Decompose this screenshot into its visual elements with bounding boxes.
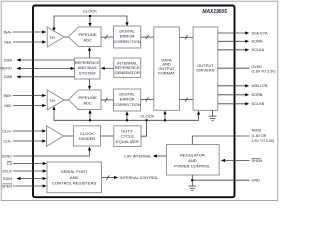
- wire T/H B to pipeline ADC B: [64, 99, 68, 101]
- pin INA+: [3, 30, 46, 34]
- svg-text:SDIN: SDIN: [3, 177, 12, 181]
- pin CLK+: [2, 129, 46, 133]
- svg-text:INTERNAL CONTROL: INTERNAL CONTROL: [120, 176, 158, 180]
- node 1.8V INTERNAL: [124, 154, 167, 158]
- svg-text:CORRECTION: CORRECTION: [113, 39, 140, 44]
- wire equalizer output to clock rail: [141, 120, 147, 136]
- clock divider: [74, 126, 101, 146]
- svg-text:CLOCK: CLOCK: [140, 113, 154, 118]
- svg-text:INB+: INB+: [3, 94, 12, 98]
- svg-text:CLOCK: CLOCK: [83, 9, 97, 14]
- wire DEC A to data format (bus): [141, 35, 154, 39]
- pin GND: [192, 179, 260, 183]
- reference and bias system: [75, 58, 101, 79]
- outer frame: [1, 1, 278, 200]
- wire buffer to clock divider: [64, 135, 74, 137]
- pin INA-: [4, 40, 46, 44]
- wire pipeline B to DEC B (bus): [101, 98, 114, 102]
- pin DCLKB: [218, 102, 265, 106]
- svg-text:DORA: DORA: [252, 40, 263, 44]
- wire clock to T/H B: [52, 106, 55, 110]
- svg-text:INA+: INA+: [3, 30, 12, 34]
- svg-text:(1.8V TO 3.3V): (1.8V TO 3.3V): [252, 70, 276, 74]
- clock input buffer: [47, 126, 64, 147]
- ground (regulator): [188, 180, 196, 190]
- svg-text:AND: AND: [70, 175, 79, 180]
- pin SPEN (active low): [2, 184, 47, 188]
- svg-text:CONTROL REGISTERS: CONTROL REGISTERS: [52, 181, 96, 186]
- svg-text:ERROR: ERROR: [120, 34, 135, 39]
- T/H amplifier B: [47, 90, 64, 110]
- pin CLK-: [3, 139, 46, 143]
- ground (output drivers): [209, 110, 217, 120]
- pin DCLKA: [218, 48, 265, 52]
- wire reference to pipeline ADC B: [88, 79, 91, 90]
- svg-text:CMB: CMB: [4, 75, 13, 79]
- svg-text:ADC: ADC: [83, 100, 92, 105]
- svg-text:ERROR: ERROR: [120, 97, 135, 102]
- svg-text:DCLKA: DCLKA: [252, 48, 265, 52]
- svg-text:FORMAT: FORMAT: [158, 71, 175, 76]
- junction dot ground node: [191, 179, 194, 182]
- svg-text:SYSTEM: SYSTEM: [79, 71, 96, 76]
- pin SHDN (active low): [221, 158, 263, 162]
- wire reference generator to reference system: [101, 67, 114, 70]
- pin CMA: [4, 58, 75, 62]
- pin DORB: [218, 93, 263, 97]
- pin DORA: [218, 40, 263, 44]
- svg-text:DORB: DORB: [252, 93, 263, 97]
- pin D0B-D7B: [218, 84, 268, 88]
- wire reference to pipeline ADC A: [88, 47, 91, 58]
- wire data format to output drivers B (bus): [179, 98, 193, 102]
- svg-text:1.8V INTERNAL: 1.8V INTERNAL: [124, 154, 152, 158]
- svg-text:SCLK: SCLK: [2, 169, 12, 173]
- wire DEC B to data format (bus): [141, 97, 154, 101]
- pin CS (active low): [7, 161, 47, 165]
- svg-text:T/H: T/H: [49, 99, 55, 103]
- pin OVDD: [218, 65, 276, 73]
- wire top clock rail: [52, 16, 128, 31]
- svg-text:REFERENCE: REFERENCE: [75, 60, 100, 65]
- pin CMB: [4, 75, 75, 79]
- wire bottom clock rail: [54, 110, 199, 121]
- wire clock divider to duty-cycle equalizer: [101, 135, 114, 137]
- pin INB+: [3, 94, 46, 98]
- svg-text:CORRECTION: CORRECTION: [113, 102, 140, 107]
- svg-text:CLK+: CLK+: [2, 129, 12, 133]
- svg-text:EQUALIZER: EQUALIZER: [116, 139, 139, 144]
- pin D0A-D7A: [218, 31, 268, 35]
- wire clock to DEC B: [125, 111, 128, 120]
- svg-text:REGULATOR: REGULATOR: [180, 152, 205, 157]
- pipeline ADC A: [68, 27, 101, 47]
- svg-text:SHDN: SHDN: [252, 159, 263, 163]
- internal reference generator: [114, 58, 141, 77]
- svg-text:DIGITAL: DIGITAL: [119, 91, 135, 96]
- digital error correction A: [113, 26, 140, 48]
- data and output format: [154, 27, 180, 110]
- output drivers: [193, 27, 218, 110]
- chip boundary MAX19505: [33, 6, 235, 198]
- duty-cycle equalizer: [114, 126, 141, 147]
- svg-text:SYNC: SYNC: [1, 154, 12, 158]
- wire clock drop to pipeline ADC A: [88, 16, 91, 27]
- svg-text:CMA: CMA: [4, 58, 13, 62]
- wire clock to output drivers: [197, 111, 200, 115]
- svg-text:ADC: ADC: [83, 37, 92, 42]
- svg-text:CLK-: CLK-: [3, 139, 12, 143]
- svg-text:GENERATOR: GENERATOR: [115, 70, 140, 75]
- T/H amplifier A: [47, 27, 64, 47]
- svg-text:AVDD: AVDD: [252, 129, 262, 133]
- digital error correction B: [113, 89, 140, 111]
- pipeline ADC B: [68, 90, 101, 110]
- junction dots bottom rail: [89, 119, 91, 121]
- wire clock to data format: [163, 111, 166, 121]
- pin REFIO: [0, 67, 74, 71]
- svg-text:D0B-D7B: D0B-D7B: [252, 84, 269, 88]
- serial port and control registers: [47, 162, 102, 193]
- svg-text:DIVIDER: DIVIDER: [79, 136, 95, 141]
- wire internal control (bus): [102, 175, 119, 179]
- svg-text:AND: AND: [188, 158, 197, 163]
- svg-text:POWER CONTROL: POWER CONTROL: [174, 163, 211, 168]
- svg-text:REFIO: REFIO: [0, 67, 12, 71]
- svg-text:(1.8V OR: (1.8V OR: [252, 134, 267, 138]
- pin INB-: [4, 104, 46, 108]
- pin SCLK: [2, 169, 47, 173]
- regulator and power control: [167, 145, 220, 176]
- svg-text:2.5V TO 3.3V): 2.5V TO 3.3V): [252, 139, 275, 143]
- svg-text:DRIVERS: DRIVERS: [196, 67, 214, 72]
- svg-text:SERIAL PORT: SERIAL PORT: [61, 169, 88, 174]
- svg-text:INA-: INA-: [4, 40, 12, 44]
- svg-text:T/H: T/H: [49, 36, 55, 40]
- pin AVDD: [192, 129, 274, 145]
- svg-text:MAX19505: MAX19505: [202, 9, 227, 15]
- svg-text:CS: CS: [7, 162, 13, 166]
- wire T/H A to pipeline ADC A: [64, 36, 68, 38]
- svg-text:SPEN: SPEN: [2, 184, 13, 188]
- wire regulator to ground: [191, 175, 193, 180]
- wire data format to output drivers A (bus): [179, 35, 193, 39]
- pin SYNC: [1, 147, 91, 159]
- svg-text:AND BIAS: AND BIAS: [78, 65, 97, 70]
- svg-text:OVDD: OVDD: [252, 65, 263, 69]
- svg-text:INB-: INB-: [4, 104, 12, 108]
- pin SDIN (bidirectional): [3, 177, 47, 181]
- junction dot top rail: [89, 15, 91, 17]
- wire clock to pipeline ADC B: [88, 110, 91, 121]
- svg-text:GND: GND: [252, 179, 261, 183]
- svg-text:DIGITAL: DIGITAL: [119, 28, 135, 33]
- svg-text:DCLKB: DCLKB: [252, 102, 265, 106]
- svg-text:D0A-D7A: D0A-D7A: [252, 31, 269, 35]
- wire pipeline A to DEC A (bus): [101, 35, 114, 39]
